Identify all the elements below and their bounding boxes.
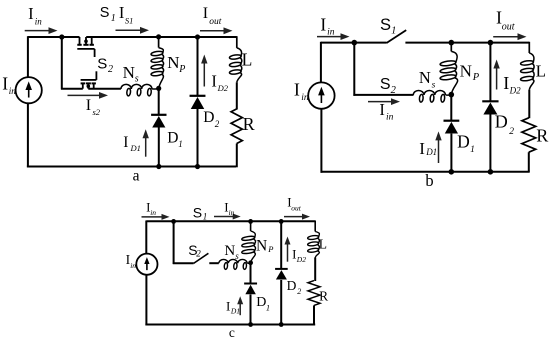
wire top right of S1 (circuit b)	[405, 42, 529, 44]
wire left column upper (circuit a)	[27, 36, 29, 77]
svg-text:D: D	[457, 132, 470, 152]
wire Np to D1 (circuit c)	[250, 263, 252, 284]
svg-text:a: a	[133, 167, 140, 184]
node top D2 (circuit a)	[195, 34, 200, 39]
wire S2 row right (circuit c)	[209, 262, 219, 264]
node top Np (circuit b)	[449, 40, 455, 46]
svg-text:in: in	[130, 261, 136, 270]
wire top segment S1 to output corner (circuit a)	[86, 36, 237, 38]
inductor L (circuit c)	[307, 221, 319, 258]
label ID1 arrow annotation (circuit c)	[237, 296, 243, 315]
wire Np to D1 (circuit a)	[158, 88, 160, 114]
node input top (circuit a)	[59, 34, 64, 39]
svg-text:S1: S1	[125, 16, 133, 26]
inductor Ns (circuit c)	[219, 259, 251, 269]
svg-text:1: 1	[266, 302, 270, 312]
svg-text:out: out	[209, 17, 222, 27]
svg-text:I: I	[226, 299, 230, 314]
svg-text:2: 2	[509, 127, 514, 137]
svg-text:S: S	[380, 16, 391, 34]
wire D2 top (circuit b)	[489, 43, 491, 102]
inductor Np (circuit a)	[151, 37, 164, 89]
svg-text:N: N	[256, 237, 267, 254]
node bottom D2 (circuit b)	[488, 169, 494, 175]
inductor Ns (circuit b)	[413, 91, 451, 103]
resistor R (circuit b)	[522, 118, 536, 152]
svg-text:D2: D2	[217, 83, 229, 93]
diode D2 (circuit a)	[190, 96, 206, 109]
label Iin arrow annotation top-left (circuit a)	[25, 27, 58, 34]
label Is2 arrow annotation (circuit a)	[68, 92, 109, 99]
svg-text:S: S	[380, 76, 391, 93]
svg-text:R: R	[536, 126, 548, 146]
inductor Np (circuit b)	[440, 43, 458, 95]
wire S2 vertical feed (circuit b)	[353, 43, 355, 96]
svg-text:D2: D2	[296, 255, 306, 264]
svg-text:in: in	[301, 93, 309, 103]
wire S2 vertical feed (circuit a)	[61, 37, 63, 90]
svg-text:I: I	[379, 100, 385, 119]
diode D1 (circuit c)	[244, 284, 257, 295]
wire bottom rail (circuit b)	[321, 171, 530, 173]
node top Np (circuit a)	[156, 34, 161, 39]
svg-text:D2: D2	[509, 86, 521, 96]
svg-text:1: 1	[203, 211, 208, 221]
node bottom D1 (circuit b)	[449, 169, 455, 175]
svg-text:N: N	[419, 68, 431, 87]
wire R to bottom (circuit b)	[528, 152, 530, 172]
svg-text:P: P	[267, 244, 273, 254]
svg-text:b: b	[425, 171, 433, 190]
resistor R (circuit a)	[231, 109, 242, 144]
wire left column lower (circuit a)	[27, 103, 29, 167]
wire D2 top (circuit c)	[280, 221, 282, 269]
label Iin arrow annotation mid (circuit c)	[214, 214, 241, 220]
svg-text:2: 2	[108, 64, 113, 75]
node input top (circuit b)	[352, 40, 358, 46]
wire D1 to bottom (circuit c)	[250, 295, 252, 325]
svg-text:I: I	[2, 74, 8, 94]
svg-text:I: I	[123, 134, 128, 151]
node top Np (circuit c)	[248, 219, 253, 224]
current source Iin (circuit a)	[16, 77, 42, 103]
svg-text:N: N	[224, 243, 235, 259]
inductor Ns (circuit a)	[121, 84, 159, 96]
svg-text:I: I	[86, 97, 91, 114]
svg-text:I: I	[419, 139, 425, 158]
svg-text:in: in	[35, 16, 43, 26]
svg-text:out: out	[291, 204, 302, 213]
svg-text:D1: D1	[130, 143, 141, 153]
label ID1 arrow annotation (circuit a)	[143, 129, 149, 156]
diode D1 (circuit a)	[151, 115, 166, 128]
wire D1 to bottom (circuit a)	[158, 128, 160, 167]
wire left column upper (circuit c)	[145, 221, 147, 254]
label IS1 arrow annotation (circuit a)	[116, 27, 150, 34]
svg-text:I: I	[203, 5, 208, 22]
label Iout arrow annotation (circuit b)	[493, 33, 526, 40]
svg-text:S: S	[193, 204, 202, 220]
diode D1 (circuit b)	[444, 121, 460, 134]
node bottom D2 (circuit a)	[195, 164, 200, 169]
svg-text:S: S	[97, 55, 107, 72]
svg-text:D: D	[203, 109, 214, 126]
inductor L (circuit b)	[520, 42, 534, 90]
svg-text:1: 1	[391, 25, 396, 36]
node bottom D1 (circuit c)	[248, 322, 253, 327]
wire left column lower (circuit c)	[145, 275, 147, 326]
svg-text:L: L	[242, 49, 253, 69]
wire S2 row right to Ns (circuit a)	[88, 88, 121, 90]
wire D2 to bottom (circuit a)	[197, 109, 199, 167]
svg-text:P: P	[472, 72, 480, 83]
label ID2 arrow annotation (circuit a)	[201, 55, 207, 87]
wire Np to D1 (circuit b)	[450, 95, 452, 121]
wire top-left segment (circuit b)	[321, 42, 387, 44]
svg-text:D: D	[495, 112, 508, 132]
wire bottom rail (circuit a)	[27, 166, 236, 168]
svg-text:P: P	[178, 64, 185, 75]
wire bottom rail (circuit c)	[145, 324, 315, 326]
node bottom D2 (circuit c)	[279, 322, 284, 327]
node top D2 (circuit b)	[488, 40, 494, 46]
label Iout arrow annotation (circuit a)	[200, 27, 233, 34]
wire L to R (circuit a)	[236, 82, 238, 109]
svg-text:in: in	[327, 27, 335, 37]
svg-text:N: N	[167, 53, 179, 72]
wire S2 vertical feed (circuit c)	[173, 221, 175, 264]
svg-text:N: N	[123, 63, 135, 82]
wire L to R (circuit b)	[528, 90, 530, 119]
node bottom D1 (circuit a)	[156, 164, 161, 169]
svg-text:in: in	[150, 208, 156, 217]
svg-text:2: 2	[391, 85, 397, 96]
wire S2 row left (circuit c)	[173, 262, 194, 264]
inductor L (circuit a)	[229, 36, 242, 82]
node Ns-Np junction (circuit b)	[449, 92, 455, 98]
label ID2 arrow annotation (circuit b)	[493, 60, 499, 90]
current source Iin (circuit b)	[308, 82, 334, 108]
svg-text:in: in	[386, 113, 394, 123]
svg-text:I: I	[211, 72, 217, 91]
wire D1 to bottom (circuit b)	[450, 134, 452, 172]
svg-text:I: I	[294, 80, 300, 100]
wire R to bottom (circuit c)	[313, 305, 315, 325]
node Ns-Np junction (circuit a)	[156, 86, 161, 91]
svg-text:c: c	[229, 325, 235, 340]
svg-text:I: I	[119, 3, 125, 22]
label Iin arrow annotation top-left (circuit c)	[142, 214, 170, 220]
svg-text:1: 1	[111, 13, 116, 24]
svg-text:s: s	[432, 80, 436, 90]
inductor Np (circuit c)	[242, 221, 256, 262]
svg-text:s: s	[235, 251, 239, 261]
svg-text:S: S	[100, 5, 110, 21]
node top D2 (circuit c)	[279, 219, 284, 224]
label ID1 arrow annotation (circuit b)	[435, 131, 441, 163]
svg-text:s2: s2	[93, 107, 101, 117]
wire D2 to bottom (circuit c)	[280, 280, 282, 325]
svg-text:in: in	[9, 86, 17, 96]
label Iout arrow annotation (circuit c)	[284, 214, 310, 220]
svg-text:1: 1	[178, 139, 183, 149]
svg-text:D1: D1	[230, 307, 240, 316]
svg-text:out: out	[502, 21, 515, 32]
label ID2 arrow annotation (circuit c)	[285, 237, 291, 262]
resistor R (circuit c)	[308, 281, 320, 306]
svg-text:I: I	[503, 73, 509, 93]
wire R to bottom (circuit a)	[236, 144, 238, 168]
svg-text:2: 2	[215, 119, 220, 129]
current source Iin (circuit c)	[136, 254, 157, 275]
wire D2 top (circuit a)	[197, 37, 199, 96]
wire top-left input segment (circuit a)	[28, 36, 80, 38]
switch S2 blade (circuit c)	[194, 253, 209, 263]
node input top (circuit c)	[171, 219, 176, 224]
svg-text:D1: D1	[425, 147, 437, 157]
svg-text:1: 1	[470, 145, 475, 155]
svg-text:I: I	[292, 246, 296, 261]
svg-text:R: R	[319, 288, 328, 303]
svg-text:L: L	[319, 237, 327, 252]
wire left column upper (circuit b)	[320, 42, 322, 83]
switch S1 blade (circuit b)	[387, 30, 407, 43]
label Iin arrow annotation below S2 (circuit b)	[368, 98, 400, 105]
svg-text:in: in	[229, 208, 235, 217]
transistor S2 (circuit a)	[81, 71, 97, 88]
svg-text:2: 2	[196, 248, 201, 258]
svg-text:2: 2	[297, 287, 301, 296]
svg-text:R: R	[243, 114, 255, 134]
wire S2 row (circuit b)	[353, 94, 413, 96]
label Iin arrow annotation top-left (circuit b)	[317, 33, 350, 40]
svg-text:D: D	[287, 278, 297, 293]
wire D2 to bottom (circuit b)	[489, 115, 491, 172]
wire S2 row left (circuit a)	[61, 88, 83, 90]
svg-text:D: D	[167, 129, 178, 146]
svg-text:L: L	[536, 61, 546, 80]
node Ns-Np junction (circuit c)	[248, 260, 253, 265]
wire L to R (circuit c)	[314, 258, 316, 282]
svg-text:s: s	[135, 74, 139, 85]
svg-text:N: N	[460, 61, 472, 80]
transistor S1 (circuit a)	[77, 37, 94, 57]
diode D2 (circuit b)	[482, 101, 498, 114]
diode D2 (circuit c)	[275, 269, 288, 280]
svg-text:I: I	[28, 4, 33, 23]
svg-text:I: I	[320, 14, 326, 34]
wire left column lower (circuit b)	[320, 109, 322, 173]
wire top rail (circuit c)	[146, 220, 315, 222]
